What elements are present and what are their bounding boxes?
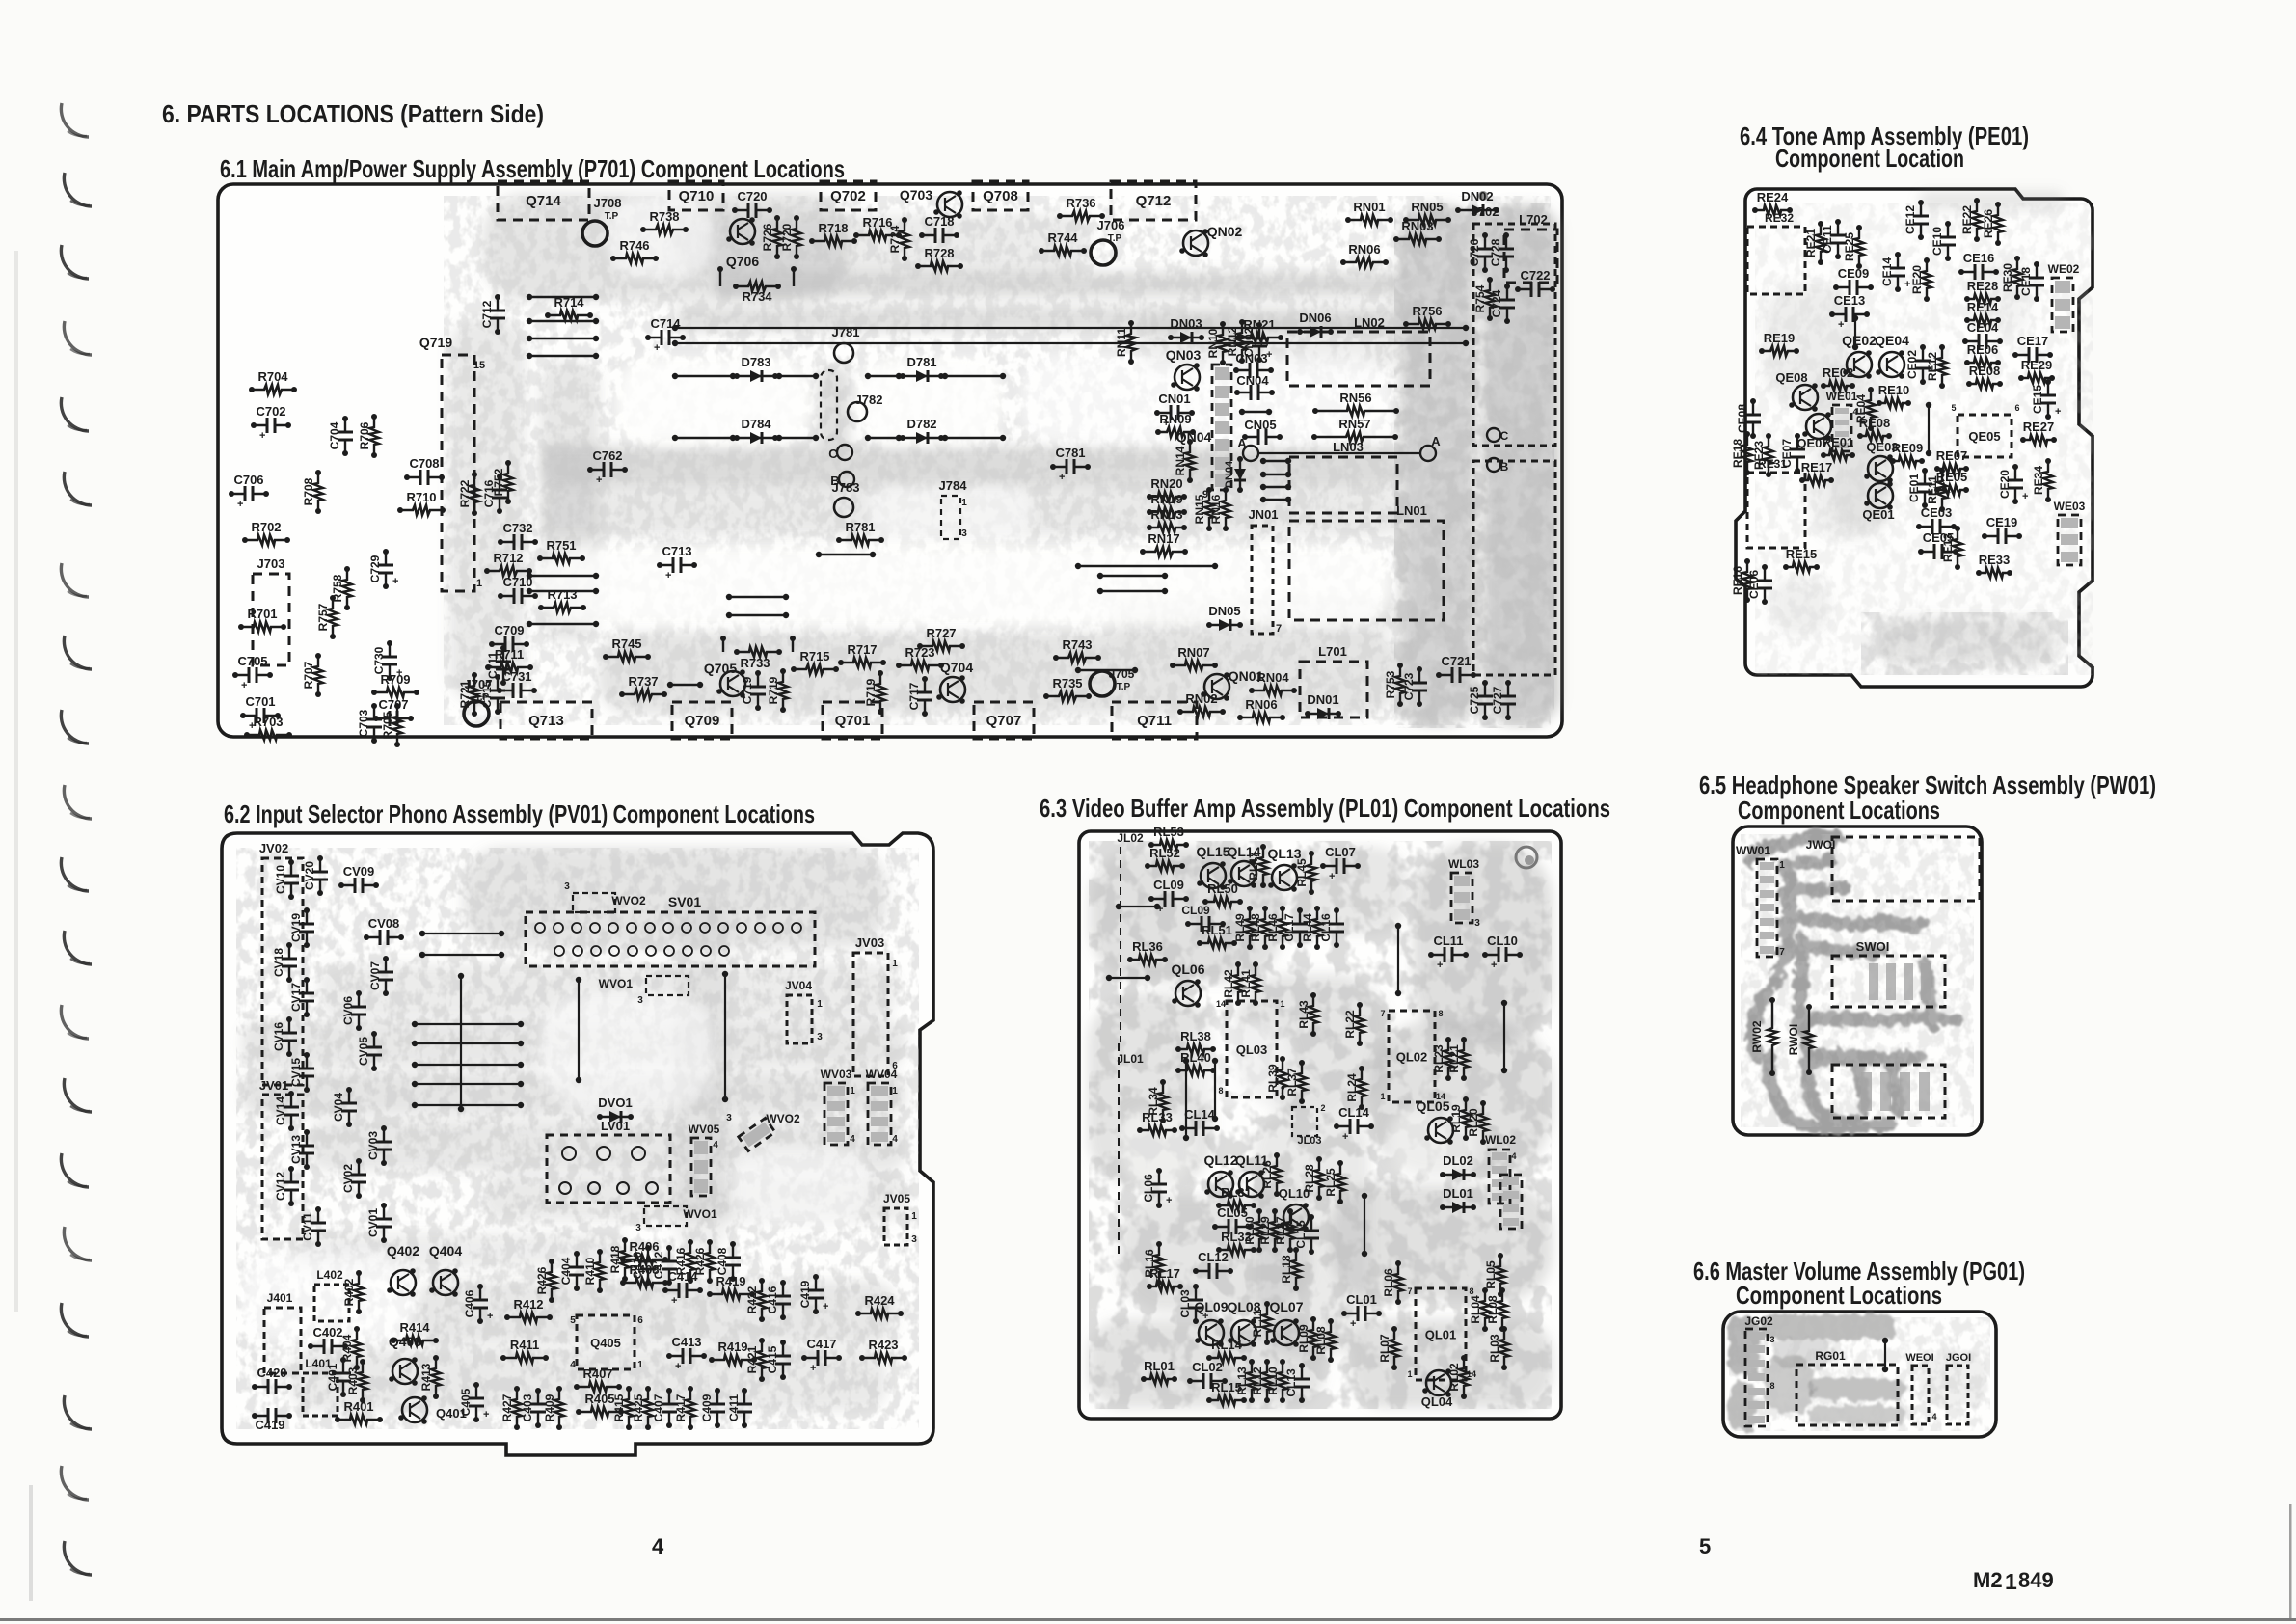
svg-text:R751: R751	[546, 538, 576, 553]
svg-text:RG01: RG01	[1815, 1349, 1846, 1363]
svg-text:7: 7	[1276, 623, 1282, 635]
svg-text:RE29: RE29	[2021, 358, 2053, 372]
capacitor CL10	[1485, 954, 1520, 956]
svg-text:C708: C708	[409, 456, 439, 471]
svg-text:RE13: RE13	[1941, 533, 1955, 562]
svg-text:R407: R407	[582, 1367, 612, 1381]
resistor RL40	[1178, 1066, 1213, 1075]
resistor R715	[794, 664, 836, 674]
svg-text:CL03: CL03	[1178, 1289, 1192, 1318]
transistor outline Q711	[1112, 702, 1197, 739]
resistor RE02	[1823, 381, 1852, 391]
transistor QE08	[1793, 385, 1818, 410]
wire bus	[415, 1104, 521, 1106]
svg-text:C725: C725	[1468, 686, 1481, 714]
svg-text:WV05: WV05	[689, 1123, 720, 1136]
node A right	[1420, 446, 1436, 461]
svg-text:J708: J708	[594, 196, 622, 210]
svg-text:C412: C412	[652, 1251, 665, 1279]
resistor R409	[554, 1389, 564, 1427]
capacitor C417	[804, 1357, 839, 1359]
svg-text:R710: R710	[406, 490, 436, 504]
svg-text:RN56: RN56	[1339, 391, 1371, 405]
resistor RL53	[1151, 840, 1186, 850]
resistor RE14	[1967, 315, 1998, 325]
svg-text:B: B	[1500, 460, 1509, 474]
resistor RL03	[1499, 1329, 1509, 1367]
svg-text:RL02: RL02	[1447, 1363, 1461, 1392]
capacitor CL11	[1431, 954, 1466, 956]
junction J784	[941, 496, 960, 539]
svg-text:+: +	[1166, 1195, 1172, 1206]
svg-text:T.P: T.P	[475, 692, 490, 703]
board PV01 speckle	[236, 848, 919, 1429]
capacitor C405	[475, 1385, 477, 1420]
svg-text:Q719: Q719	[419, 335, 452, 350]
resistor RE12	[1937, 347, 1947, 386]
svg-text:R425: R425	[632, 1394, 645, 1421]
svg-text:RL18: RL18	[1280, 1255, 1293, 1284]
svg-text:R743: R743	[1062, 637, 1092, 652]
capacitor CE17	[2015, 354, 2050, 356]
resistor RL42	[1233, 964, 1243, 1003]
board PG01 speckle	[1729, 1317, 1990, 1431]
svg-text:CV17: CV17	[289, 983, 303, 1012]
capacitor CL06	[1158, 1171, 1160, 1205]
switch WV02 mid	[739, 1118, 775, 1150]
svg-text:RL46: RL46	[1266, 913, 1280, 942]
resistor RL46	[1278, 908, 1287, 947]
resistor R719	[778, 671, 788, 710]
capacitor C402	[311, 1345, 345, 1347]
capacitor CE01	[1924, 471, 1926, 505]
svg-text:8: 8	[1218, 1086, 1223, 1096]
connector JN01	[1252, 526, 1273, 634]
svg-text:R703: R703	[253, 715, 283, 729]
svg-text:RL38: RL38	[1180, 1029, 1211, 1043]
svg-text:C705: C705	[237, 654, 267, 668]
board PG01 copper texture	[1729, 1314, 1986, 1431]
svg-text:LV01: LV01	[601, 1119, 630, 1133]
svg-text:RE33: RE33	[1979, 553, 2011, 567]
svg-text:J784: J784	[939, 478, 968, 493]
svg-text:RE28: RE28	[1967, 279, 1999, 293]
transistor QL05	[1428, 1118, 1453, 1143]
connector JG02	[1745, 1329, 1768, 1426]
capacitor C711	[502, 648, 504, 683]
resistor R753	[1395, 665, 1405, 704]
resistor RL32	[1219, 1245, 1254, 1255]
svg-text:R706: R706	[358, 421, 371, 449]
diode DV01	[600, 1116, 631, 1118]
svg-text:CE03: CE03	[1921, 505, 1953, 520]
resistor R426b	[705, 1242, 715, 1281]
capacitor CV12	[290, 1169, 292, 1204]
svg-text:RL50: RL50	[1207, 881, 1238, 896]
svg-text:RE16: RE16	[1731, 566, 1744, 595]
resistor R754	[1485, 280, 1495, 318]
svg-text:CE10: CE10	[1931, 227, 1944, 256]
svg-text:QL12: QL12	[1203, 1152, 1237, 1168]
capacitor CV18	[288, 945, 290, 980]
testpoint J706	[1091, 240, 1116, 265]
svg-text:R707: R707	[302, 661, 315, 689]
capacitor C727	[1507, 683, 1509, 717]
svg-text:+: +	[665, 570, 671, 582]
resistor R738	[643, 225, 686, 234]
resistor R418	[620, 1240, 630, 1279]
junction J781	[834, 343, 853, 363]
svg-text:RL10: RL10	[1266, 1367, 1280, 1395]
svg-text:CV06: CV06	[341, 996, 355, 1025]
resistor RE08	[1969, 379, 2000, 389]
svg-text:+: +	[237, 499, 243, 510]
svg-text:R411: R411	[510, 1338, 539, 1352]
svg-text:RL20: RL20	[1467, 1108, 1480, 1137]
diode D784	[737, 437, 775, 439]
wire h2	[1109, 977, 1148, 979]
capacitor CL17	[1299, 910, 1301, 945]
svg-text:WL03: WL03	[1448, 857, 1479, 871]
resistor R712	[487, 566, 529, 576]
svg-text:T.P: T.P	[1117, 682, 1131, 692]
resistor RE17	[1802, 475, 1831, 485]
svg-text:CE13: CE13	[1834, 293, 1866, 308]
resistor RN21	[1238, 333, 1281, 342]
resistor RL19	[1461, 1099, 1471, 1138]
svg-text:CV01: CV01	[366, 1208, 380, 1237]
transistor QL04	[1426, 1370, 1451, 1395]
svg-text:RL44: RL44	[1301, 913, 1314, 942]
wire row	[729, 596, 786, 598]
resistor R403	[358, 1362, 367, 1400]
capacitor C726	[1484, 235, 1486, 270]
svg-text:R419: R419	[716, 1274, 745, 1288]
svg-text:C727: C727	[1491, 686, 1504, 714]
svg-text:CV03: CV03	[366, 1131, 380, 1160]
svg-text:+: +	[1059, 472, 1065, 483]
svg-text:RN16: RN16	[1209, 494, 1223, 524]
svg-text:R781: R781	[845, 520, 875, 534]
resistor RL25	[1336, 1163, 1345, 1202]
resistor RE29	[2021, 373, 2052, 383]
svg-text:RL48: RL48	[1249, 913, 1262, 942]
svg-text:R427: R427	[500, 1394, 514, 1421]
svg-text:C707: C707	[378, 697, 408, 712]
svg-text:CE18: CE18	[2019, 267, 2033, 296]
svg-text:+: +	[1329, 871, 1335, 882]
resistor R415	[624, 1389, 634, 1427]
svg-text:CL09: CL09	[1181, 904, 1210, 917]
wire v4	[1364, 1196, 1365, 1254]
svg-text:JV03: JV03	[855, 935, 884, 950]
svg-text:CL14: CL14	[1184, 1107, 1216, 1122]
svg-text:RL17: RL17	[1149, 1266, 1180, 1281]
resistor R705	[392, 706, 402, 744]
wire v	[1854, 318, 1856, 347]
svg-text:3: 3	[1474, 918, 1480, 929]
wire w1	[529, 296, 596, 298]
transistor outline Q702	[821, 181, 876, 210]
resistor R706	[369, 417, 379, 455]
diode D783	[737, 375, 775, 377]
resistor RL36	[1130, 955, 1165, 964]
resistor RL15	[1209, 1395, 1244, 1405]
svg-text:RE31: RE31	[1758, 457, 1787, 471]
resistor RL38	[1178, 1044, 1213, 1054]
svg-text:R753: R753	[1384, 670, 1397, 698]
svg-text:RL39: RL39	[1266, 1064, 1280, 1093]
transistor QE03	[1868, 456, 1893, 481]
capacitor CE11	[1837, 222, 1839, 257]
svg-text:CL12: CL12	[1198, 1250, 1229, 1264]
capacitor C762	[590, 469, 625, 471]
transistor QE07	[1806, 414, 1831, 439]
connector J401	[264, 1308, 301, 1373]
switch WV03	[824, 1083, 848, 1145]
svg-text:1: 1	[476, 578, 482, 589]
capacitor CL03	[1195, 1286, 1197, 1321]
resistor R425	[643, 1389, 653, 1427]
switch WL02	[1489, 1150, 1510, 1204]
svg-text:Q402: Q402	[387, 1243, 419, 1259]
svg-text:R737: R737	[628, 674, 658, 689]
svg-text:CV08: CV08	[368, 916, 400, 931]
svg-text:CN04: CN04	[1236, 373, 1269, 388]
svg-text:4: 4	[1511, 1151, 1516, 1161]
svg-text:+: +	[392, 576, 398, 587]
svg-text:JV05: JV05	[883, 1192, 910, 1205]
svg-text:6.2 Input Selector Phono Asse: 6.2 Input Selector Phono Assembly (PV01)…	[224, 799, 815, 828]
svg-text:R423: R423	[868, 1338, 898, 1352]
svg-text:CV15: CV15	[289, 1058, 303, 1087]
capacitor CV08	[366, 936, 401, 938]
svg-text:R719: R719	[767, 676, 780, 704]
capacitor CV16	[288, 1019, 290, 1054]
transistor QE01	[1868, 483, 1893, 508]
pot RE32	[1747, 227, 1805, 294]
resistor R743	[1056, 653, 1098, 663]
resistor R707	[313, 656, 323, 694]
resistor R720	[792, 218, 801, 257]
transistor outline Q712	[1111, 181, 1196, 220]
wire v2	[1503, 1003, 1505, 1070]
svg-text:RL22: RL22	[1343, 1010, 1357, 1039]
svg-text:R402: R402	[342, 1278, 356, 1306]
capacitor CV17	[306, 980, 308, 1015]
capacitor C716	[499, 476, 500, 511]
svg-text:C722: C722	[1520, 268, 1550, 283]
capacitor CE18	[2036, 264, 2038, 299]
capacitor C406	[479, 1286, 481, 1321]
diode DN06	[1300, 331, 1331, 333]
svg-text:J782: J782	[855, 392, 883, 407]
svg-text:CE16: CE16	[1963, 251, 1995, 265]
resistor RL09	[1309, 1319, 1318, 1358]
resistor RL45	[1307, 853, 1316, 892]
capacitor C725	[1484, 683, 1486, 717]
resistor RN20	[1149, 492, 1184, 501]
capacitor C704	[344, 419, 346, 453]
svg-text:4: 4	[652, 1534, 664, 1558]
svg-text:Q701: Q701	[835, 713, 871, 729]
resistor RL30	[1255, 1211, 1264, 1250]
svg-text:CL09: CL09	[1153, 878, 1184, 892]
resistor RE13	[1953, 528, 1962, 567]
svg-text:R752: R752	[492, 468, 505, 496]
svg-text:LN03: LN03	[1333, 440, 1364, 454]
svg-text:CE06: CE06	[1747, 570, 1761, 599]
svg-text:Q709: Q709	[685, 713, 720, 729]
transistor Q402	[391, 1270, 416, 1295]
svg-text:C723: C723	[1402, 672, 1416, 700]
board PW01 copper traces	[1750, 836, 1956, 1126]
resistor R728	[918, 261, 960, 271]
capacitor C413	[669, 1355, 704, 1357]
svg-text:C706: C706	[233, 473, 263, 487]
svg-text:R733: R733	[740, 656, 770, 670]
resistor RL18	[1291, 1250, 1301, 1288]
svg-text:CV16: CV16	[272, 1022, 285, 1051]
svg-text:RE24: RE24	[1757, 190, 1789, 204]
ic LV01	[547, 1135, 670, 1203]
capacitor C420	[255, 1386, 289, 1388]
testpoint J705	[1090, 671, 1115, 696]
svg-text:J783: J783	[832, 480, 860, 495]
svg-text:CL13: CL13	[1284, 1368, 1298, 1397]
resistor RN16	[1221, 490, 1230, 528]
svg-text:RN07: RN07	[1177, 645, 1209, 660]
svg-text:1: 1	[1407, 1369, 1412, 1379]
capacitor CV03	[383, 1128, 385, 1163]
capacitor C714	[648, 337, 683, 338]
svg-text:R418: R418	[608, 1245, 622, 1273]
resistor RE24	[1755, 205, 1790, 215]
svg-text:RL53: RL53	[1153, 825, 1184, 839]
svg-text:C419: C419	[798, 1280, 812, 1308]
svg-text:RE01: RE01	[1823, 435, 1854, 449]
resistor RL31	[1219, 1201, 1254, 1210]
svg-text:R426: R426	[535, 1266, 549, 1294]
capacitor C712	[497, 297, 499, 332]
svg-text:RL19: RL19	[1449, 1104, 1463, 1133]
svg-text:WW01: WW01	[1736, 844, 1770, 857]
wire row	[529, 623, 596, 625]
capacitor CV14	[290, 1094, 292, 1128]
spiral binding marks left edge	[61, 103, 89, 137]
svg-text:RN03: RN03	[1401, 219, 1433, 233]
mounting hole PL01	[1516, 847, 1537, 868]
svg-text:C781: C781	[1055, 446, 1085, 460]
resistor RL04	[1480, 1290, 1490, 1329]
svg-text:RL11: RL11	[1251, 1309, 1264, 1337]
svg-text:RN57: RN57	[1338, 417, 1370, 431]
resistor RE26	[1993, 204, 2003, 243]
svg-text:C728: C728	[1489, 238, 1502, 266]
connector JV02	[262, 858, 303, 1085]
resistor RL33	[1140, 1125, 1175, 1135]
resistor R713	[541, 603, 583, 612]
svg-text:RE10: RE10	[1878, 383, 1910, 397]
board PL01 white pockets	[1119, 1022, 1475, 1186]
diode DL02	[1443, 1174, 1473, 1176]
resistor RE18	[1742, 434, 1752, 473]
node A left	[1243, 446, 1258, 461]
svg-text:RN01: RN01	[1353, 200, 1385, 214]
resistor R416	[686, 1242, 695, 1281]
svg-text:+: +	[1491, 960, 1497, 971]
svg-text:3: 3	[635, 1223, 641, 1233]
svg-text:RN04: RN04	[1256, 670, 1289, 685]
svg-text:RL09: RL09	[1297, 1324, 1310, 1353]
svg-text:QE05: QE05	[1968, 429, 2000, 444]
transistor QL09	[1199, 1320, 1224, 1345]
capacitor CL05	[1215, 1226, 1250, 1228]
svg-text:C729: C729	[368, 555, 382, 582]
board outline PW01	[1733, 826, 1982, 1135]
resistor R407	[577, 1382, 619, 1392]
resistor RL29	[1270, 1211, 1280, 1250]
svg-text:RE34: RE34	[2032, 466, 2045, 495]
wire bus	[415, 1042, 521, 1044]
diode DN03	[1171, 337, 1202, 338]
svg-text:QL09: QL09	[1194, 1299, 1228, 1314]
resistor RE27	[2023, 435, 2054, 445]
svg-text:C408: C408	[716, 1247, 729, 1275]
resistor RL07	[1390, 1329, 1399, 1367]
svg-text:1: 1	[637, 1360, 643, 1370]
svg-text:RE25: RE25	[1843, 232, 1856, 261]
resistor RL43	[1309, 995, 1318, 1034]
svg-text:R724: R724	[888, 225, 902, 253]
transistor outline Q709	[672, 702, 732, 739]
svg-text:R756: R756	[1412, 304, 1442, 318]
svg-text:RE12: RE12	[1926, 352, 1939, 381]
capacitor C410	[647, 1248, 649, 1283]
capacitor C412	[668, 1248, 670, 1283]
svg-text:RL26: RL26	[1260, 1160, 1274, 1189]
svg-text:Q403: Q403	[389, 1334, 421, 1349]
svg-text:C420: C420	[257, 1366, 286, 1380]
transistor QL15	[1201, 863, 1226, 888]
resistor R719b	[876, 673, 885, 712]
resistor R746	[613, 254, 656, 263]
capacitor C404	[576, 1254, 578, 1288]
svg-text:1: 1	[1380, 1092, 1385, 1101]
svg-text:CE20: CE20	[1998, 470, 2012, 499]
resistor R424	[858, 1309, 901, 1318]
resistor R708	[313, 473, 323, 511]
svg-text:+: +	[671, 1295, 677, 1307]
svg-text:CE14: CE14	[1880, 257, 1894, 286]
svg-text:C: C	[1500, 429, 1509, 443]
svg-text:WEOI: WEOI	[1905, 1352, 1933, 1364]
resistor RE22	[1972, 201, 1982, 239]
diode DN05	[1209, 624, 1240, 626]
resistor RL01	[1144, 1374, 1175, 1384]
resistor R421	[757, 1340, 767, 1379]
capacitor C715	[497, 677, 499, 712]
wire v	[578, 980, 580, 1080]
svg-text:R409: R409	[543, 1394, 556, 1421]
svg-text:WV04: WV04	[866, 1068, 898, 1081]
capacitor CV13	[306, 1132, 308, 1167]
svg-text:RN13: RN13	[1150, 507, 1182, 522]
svg-text:6: 6	[637, 1315, 643, 1326]
connector J702b	[1473, 461, 1555, 675]
resistor R414	[393, 1336, 436, 1345]
svg-text:RL41: RL41	[1239, 969, 1253, 998]
